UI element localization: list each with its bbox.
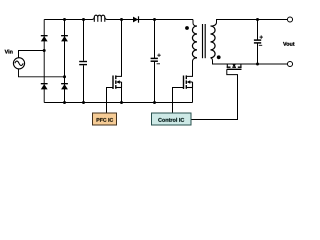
junction PFC mosfet drain / top rail bbox=[120, 18, 123, 21]
capacitor C2 boost output electrolytic bbox=[151, 58, 158, 61]
wire top rail mid (inductor to transformer) bbox=[107, 19, 193, 21]
transistor Q3 sync rectifier mosfet bbox=[227, 64, 242, 69]
junction Vin top / bridge left branch bbox=[43, 49, 46, 52]
node T1 secondary polarity dot bbox=[217, 55, 221, 59]
diode D5 boost bbox=[133, 16, 139, 22]
wire top rail left (bridge to inductor) bbox=[44, 19, 92, 21]
node T1 primary polarity dot bbox=[185, 26, 189, 30]
label C3 plus bbox=[260, 35, 263, 38]
junction output cap / secondary top rail bbox=[256, 18, 259, 21]
capacitor C1 input filter bbox=[79, 62, 87, 65]
AC source V1 bbox=[13, 58, 24, 69]
wire Vin bottom lead bbox=[19, 69, 65, 77]
diode D4 bridge bottom-right bbox=[61, 83, 68, 89]
wire primary bottom lead / flyback mosfet drain bbox=[187, 58, 197, 77]
wire secondary bottom lead and output bottom line bbox=[211, 58, 288, 64]
op-amp U1 PFC IC box bbox=[93, 113, 117, 125]
transformer T1 secondary winding bbox=[211, 26, 216, 58]
wire bridge left branch bbox=[43, 20, 45, 103]
wire input cap branch bbox=[83, 20, 85, 61]
transistor Q1 PFC mosfet bbox=[113, 75, 122, 89]
junction input cap / top rail bbox=[82, 18, 85, 21]
label C2 minus bbox=[157, 63, 160, 65]
diode D3 bridge bottom-left bbox=[41, 83, 48, 89]
wire output cap branch bbox=[257, 20, 259, 40]
label C3 minus bbox=[259, 44, 262, 46]
junction PFC mosfet source / bottom rail bbox=[120, 101, 123, 104]
transformer T1 core bbox=[203, 24, 206, 58]
wire PFC gate to PFC IC bbox=[107, 88, 114, 114]
wire secondary top lead bbox=[211, 20, 288, 27]
transistor Q2 flyback mosfet bbox=[184, 75, 193, 89]
label C2 plus bbox=[157, 54, 160, 57]
wire bottom rail bbox=[44, 102, 192, 104]
wire flyback mosfet source bbox=[192, 88, 194, 103]
wire PFC mosfet source bbox=[121, 88, 123, 103]
label Vout bbox=[283, 42, 294, 46]
junction Vin bottom / bridge right branch bbox=[63, 75, 66, 78]
op-amp U2 Control IC box bbox=[152, 113, 192, 125]
junction boost cap / top rail bbox=[153, 18, 156, 21]
wire PFC mosfet drain branch bbox=[116, 20, 121, 77]
wire sync fet gate to Control IC bbox=[191, 69, 238, 119]
junction boost cap / bottom rail bbox=[153, 101, 156, 104]
wire flyback gate to Control IC bbox=[173, 88, 184, 114]
wire bridge right branch bbox=[64, 20, 66, 103]
wire Vin top lead bbox=[19, 51, 45, 58]
label Vin bbox=[5, 50, 13, 54]
junction input cap / bottom rail bbox=[82, 101, 85, 104]
node Vout+ terminal bbox=[287, 17, 292, 22]
capacitor C3 output electrolytic bbox=[254, 40, 261, 43]
wire boost cap branch bbox=[154, 20, 156, 59]
diode D1 bridge top-left bbox=[41, 35, 48, 41]
diode D2 bridge top-right bbox=[61, 35, 68, 41]
inductor L1 boost bbox=[92, 15, 108, 22]
junction output cap / output bottom line bbox=[256, 63, 259, 66]
node Vout- terminal bbox=[287, 61, 292, 66]
junction bridge right branch / top rail bbox=[63, 18, 66, 21]
wire primary top lead bbox=[193, 20, 197, 27]
junction bridge right branch / bottom rail bbox=[63, 101, 66, 104]
transformer T1 primary winding bbox=[192, 26, 197, 58]
